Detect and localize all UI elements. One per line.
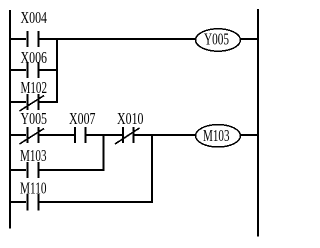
wire: contact X010 to coil M103 xyxy=(135,134,197,136)
contact M102 (normally closed, parallel branch) xyxy=(20,78,48,111)
wire: contact X007 to contact X010 xyxy=(87,134,123,136)
svg-text:Y005: Y005 xyxy=(21,109,48,128)
left power rail xyxy=(9,10,11,229)
svg-text:M102: M102 xyxy=(21,78,48,97)
contact X010 (normally closed) xyxy=(115,109,144,144)
wire: parallel branch vertical (rung 2 to M103 contact) xyxy=(103,134,105,171)
wire: parallel branch vertical (rung 2 to M110 contact) xyxy=(151,134,153,203)
coil M103 xyxy=(196,125,241,147)
coil Y005 xyxy=(196,29,241,51)
svg-text:Y005: Y005 xyxy=(204,30,229,49)
wire: left rail to contact M102 xyxy=(9,101,26,103)
svg-text:M103: M103 xyxy=(20,146,47,165)
wire: left rail to contact Y005 xyxy=(9,134,26,136)
svg-text:X004: X004 xyxy=(21,8,48,27)
svg-text:X006: X006 xyxy=(21,48,48,67)
wire: coil M103 to right rail xyxy=(240,134,259,136)
svg-text:X007: X007 xyxy=(69,109,96,128)
svg-text:M103: M103 xyxy=(203,126,230,145)
contact X007 (normally open) xyxy=(69,109,96,143)
wire: parallel branch vertical (rung 1 to X006/M102) xyxy=(56,38,58,103)
wire: contact M110 to branch vertical xyxy=(40,201,154,203)
right power rail xyxy=(257,9,259,237)
contact M103 (normally open, parallel branch) xyxy=(20,146,47,178)
contact M110 (normally open, parallel branch) xyxy=(20,179,47,211)
wire: contact Y005 to contact X007 xyxy=(40,134,75,136)
wire: left rail to contact X004 xyxy=(9,38,26,40)
wire: contact X006 to branch vertical xyxy=(40,69,59,71)
wire: contact M103 to branch vertical xyxy=(40,169,105,171)
wire: contact M102 to branch vertical xyxy=(40,101,59,103)
wire: coil Y005 to right rail xyxy=(240,38,258,40)
wire: left rail to contact X006 xyxy=(9,69,26,71)
contact Y005 (normally closed) xyxy=(20,109,48,144)
contact X006 (normally open, parallel branch) xyxy=(21,48,48,78)
svg-text:M110: M110 xyxy=(20,179,47,198)
wire: left rail to contact M110 xyxy=(9,201,26,203)
wire: left rail to contact M103 xyxy=(9,169,26,171)
wire: contact X004 to coil Y005 xyxy=(40,38,197,40)
svg-text:X010: X010 xyxy=(117,109,144,128)
contact X004 (normally open) xyxy=(21,8,48,47)
